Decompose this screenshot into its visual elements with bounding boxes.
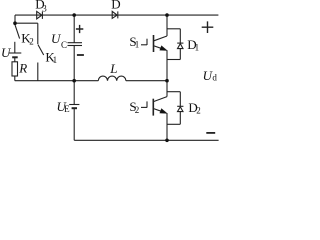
svg-text:2: 2 [135,105,140,115]
svg-text:D: D [111,0,120,12]
svg-text:2: 2 [196,105,201,115]
svg-text:L: L [109,61,117,76]
svg-text:3: 3 [42,3,47,13]
svg-text:1: 1 [53,55,58,65]
svg-text:2: 2 [29,37,34,47]
svg-text:C: C [61,40,67,50]
svg-text:1: 1 [195,42,200,52]
svg-text:1: 1 [135,40,140,50]
svg-text:R: R [18,60,27,75]
svg-text:E: E [64,104,70,114]
svg-text:U: U [1,45,12,60]
svg-text:d: d [212,73,217,83]
